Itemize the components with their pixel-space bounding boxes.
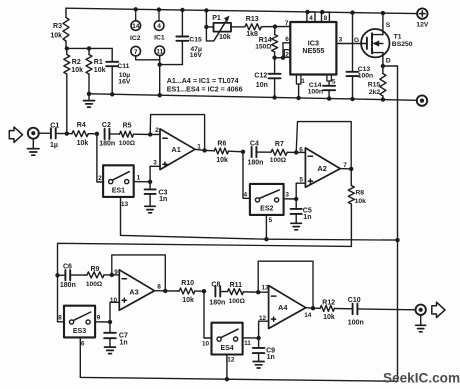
switch ES2 [250, 184, 284, 215]
svg-text:4: 4 [157, 23, 161, 30]
svg-text:1: 1 [137, 174, 141, 181]
svg-text:10: 10 [202, 341, 210, 348]
wire drain to control line [383, 66, 398, 381]
label IC1 [154, 35, 165, 42]
node P1 branch [204, 8, 208, 12]
wire control net upper [121, 235, 398, 240]
ground left rail [84, 92, 95, 107]
capacitor C10 [348, 297, 364, 327]
svg-text:C1: C1 [50, 123, 59, 130]
svg-text:2: 2 [285, 52, 289, 59]
node R14 bottom [272, 56, 276, 60]
output terminal ground [416, 315, 426, 332]
svg-text:11: 11 [156, 48, 163, 55]
svg-text:R9: R9 [91, 266, 100, 273]
svg-text:R4: R4 [77, 122, 86, 129]
watermark SeekIC.com [383, 371, 460, 386]
svg-text:R8: R8 [355, 190, 364, 197]
ground C9 [253, 362, 264, 369]
wire A1 out [195, 149, 205, 150]
svg-text:180n: 180n [209, 299, 225, 306]
svg-text:P1: P1 [212, 15, 221, 22]
wire C1-node [56, 132, 67, 134]
A3 feedback loop [112, 255, 166, 291]
resistor R1 [86, 48, 106, 93]
resistor R2 [64, 48, 83, 133]
resistor R7 [257, 141, 297, 164]
A1 feedback loop [150, 115, 204, 151]
wire A2 -in [296, 151, 305, 153]
wire node-ES1 [97, 134, 103, 182]
capacitor C9 [253, 338, 275, 361]
svg-text:C2: C2 [102, 122, 111, 129]
wire ES4 pin12 [227, 355, 235, 380]
svg-text:10k: 10k [182, 297, 194, 304]
switch ES3 [64, 306, 95, 338]
wire A2 +in [296, 183, 305, 199]
wire pin3 to gate [336, 37, 367, 44]
capacitor C13 [347, 10, 374, 101]
svg-text:150Ω: 150Ω [255, 44, 272, 51]
terminal 0V [417, 95, 427, 105]
ground C3 [145, 206, 156, 213]
capacitor C1 [50, 123, 59, 149]
svg-text:1n: 1n [159, 196, 167, 203]
svg-text:2: 2 [98, 175, 102, 182]
svg-text:7: 7 [343, 162, 347, 169]
svg-text:C4: C4 [250, 141, 259, 148]
wire ES4 out [243, 338, 259, 347]
wire pins 2-6 tie [275, 36, 291, 60]
resistor R13 [245, 16, 261, 38]
A2 feedback loop [296, 122, 351, 169]
power terminal +12V [416, 8, 429, 28]
svg-text:A1...A4 = IC1 = TL074: A1...A4 = IC1 = TL074 [167, 77, 239, 85]
switch ES4 [212, 323, 243, 355]
svg-text:100Ω: 100Ω [229, 298, 246, 305]
svg-text:R7: R7 [275, 141, 284, 148]
svg-text:C11: C11 [117, 63, 129, 70]
wire A4 +in [259, 321, 269, 338]
svg-text:D: D [386, 57, 391, 64]
wire bias node [67, 47, 112, 49]
resistor R9 [70, 266, 112, 288]
svg-text:IC2: IC2 [130, 35, 141, 42]
svg-text:ES1: ES1 [112, 188, 125, 195]
svg-text:5: 5 [299, 176, 303, 183]
svg-text:16V: 16V [118, 78, 131, 85]
svg-text:9: 9 [97, 315, 101, 322]
svg-text:7: 7 [134, 49, 138, 56]
wire A1 -in [150, 133, 160, 135]
wire drain [383, 53, 391, 66]
svg-text:C8: C8 [211, 282, 220, 289]
svg-text:A1: A1 [171, 145, 180, 154]
svg-text:R3: R3 [53, 23, 62, 30]
op-amp A1 [153, 127, 201, 170]
node IC2 supply stub [134, 7, 138, 11]
svg-text:12: 12 [227, 357, 235, 364]
svg-text:10k: 10k [355, 198, 367, 205]
wire A3 out [154, 290, 165, 292]
node R3/R2 [65, 46, 69, 50]
resistor R3 [50, 8, 69, 48]
svg-text:6: 6 [285, 36, 289, 43]
wire A1 +in [150, 166, 160, 182]
wire ES3 pin6 [80, 337, 85, 377]
resistor R4 [67, 122, 97, 147]
svg-text:100Ω: 100Ω [270, 157, 287, 164]
label ES2 pin4 [244, 191, 248, 198]
svg-text:S: S [386, 22, 391, 29]
node A4 out [311, 306, 315, 310]
node R10/C8/ES4 [202, 289, 206, 293]
svg-text:R5: R5 [123, 123, 132, 130]
svg-text:1n: 1n [303, 214, 311, 221]
svg-text:1n: 1n [120, 339, 128, 346]
IC3 NE555 box [290, 22, 336, 75]
svg-text:10k: 10k [323, 314, 335, 321]
node C11 gnd [110, 92, 114, 96]
wire node-ES2 [243, 152, 250, 199]
wire +12V top rail [66, 8, 417, 13]
svg-text:R15: R15 [368, 81, 381, 88]
svg-text:G: G [354, 37, 359, 44]
svg-text:C10: C10 [348, 297, 361, 304]
node A3 out [163, 289, 167, 293]
input terminal ground [28, 139, 40, 156]
svg-text:C7: C7 [119, 332, 128, 339]
op-amp A3 [110, 269, 161, 310]
svg-text:7: 7 [285, 20, 289, 27]
svg-text:NE555: NE555 [302, 46, 324, 55]
node A1 out [202, 148, 206, 152]
svg-text:13: 13 [121, 201, 129, 208]
svg-text:4: 4 [244, 191, 248, 198]
label ES4 pin10 [202, 341, 210, 348]
svg-text:C12: C12 [254, 72, 267, 79]
svg-text:3: 3 [285, 192, 289, 199]
pin circle 4 IC1 [154, 10, 164, 31]
node 11/gnd [158, 93, 162, 97]
svg-text:180n: 180n [99, 141, 115, 148]
wire source [383, 13, 391, 34]
capacitor C15 [158, 8, 203, 67]
node A3 inv input [110, 273, 114, 277]
svg-text:8: 8 [58, 315, 62, 322]
node ES4 pin12 junction [225, 377, 229, 381]
svg-text:10k: 10k [216, 157, 228, 164]
output arrow [432, 302, 445, 317]
node control-drain [395, 238, 399, 242]
svg-text:11: 11 [244, 340, 251, 347]
svg-text:A2: A2 [317, 164, 326, 173]
node ES4/C9 [256, 336, 260, 340]
node A2 inv input [294, 150, 298, 154]
svg-text:4: 4 [309, 15, 313, 22]
ground rail [89, 94, 417, 101]
svg-text:SeekIC.com: SeekIC.com [383, 371, 460, 386]
capacitor C4 [248, 141, 264, 167]
svg-text:3: 3 [339, 37, 343, 44]
node A1 inv input [148, 132, 152, 136]
wire input-C1 [38, 132, 51, 134]
A4 feedback loop [258, 261, 313, 308]
wire ES2 out [284, 192, 297, 199]
wire A4 out [306, 307, 313, 310]
node ES2 pin5 junction [264, 237, 268, 241]
svg-text:IC1: IC1 [154, 35, 165, 42]
node R1 top [87, 46, 91, 50]
svg-text:R13: R13 [246, 16, 259, 23]
svg-text:10n: 10n [256, 82, 268, 89]
svg-text:A4: A4 [278, 303, 288, 312]
wire A4 -in [258, 291, 268, 293]
pin circle 14 IC2 [131, 9, 141, 30]
capacitor C12 [254, 58, 280, 100]
resistor R6 [205, 141, 243, 165]
pin circle 7 IC2 [131, 46, 160, 59]
node source [381, 11, 385, 15]
svg-text:100n: 100n [358, 73, 374, 80]
node input bias [65, 131, 69, 135]
ground C5 [291, 223, 302, 230]
wire ES2 pin5 [266, 215, 272, 239]
svg-text:180n: 180n [60, 282, 76, 289]
svg-text:ES4: ES4 [220, 345, 233, 352]
svg-text:10k: 10k [219, 34, 231, 41]
capacitor C5 [291, 199, 312, 223]
svg-text:ES3: ES3 [73, 328, 86, 335]
svg-text:8: 8 [324, 15, 328, 22]
svg-text:12V: 12V [416, 22, 429, 29]
capacitor C11 [106, 48, 131, 94]
pin circle 11 IC1 [155, 46, 165, 95]
svg-text:1k8: 1k8 [246, 31, 258, 38]
wire A3 +in [110, 302, 119, 322]
wire node-ES4 [204, 291, 212, 338]
capacitor C8 [209, 282, 225, 307]
svg-text:ES1...ES4 = IC2 = 4066: ES1...ES4 = IC2 = 4066 [167, 85, 243, 93]
pin 5 stub [327, 75, 336, 86]
node A4 inv input [256, 290, 260, 294]
pin 1 stub [296, 75, 305, 101]
wire ES3 out [95, 315, 110, 322]
svg-text:5: 5 [269, 217, 273, 224]
label IC2 [130, 35, 141, 42]
resistor R10 [165, 280, 204, 304]
svg-text:R11: R11 [230, 282, 243, 289]
svg-text:16V: 16V [190, 52, 203, 59]
node ES3/C7 [108, 320, 112, 324]
input terminal [28, 128, 39, 139]
svg-text:1µ: 1µ [50, 142, 58, 149]
transistor T1 BS250 [361, 29, 413, 57]
svg-text:R12: R12 [322, 299, 335, 306]
svg-text:A3: A3 [129, 287, 138, 296]
capacitor C3 [145, 182, 168, 206]
svg-text:2k2: 2k2 [369, 89, 381, 96]
svg-text:C6: C6 [63, 264, 72, 271]
svg-text:8: 8 [157, 284, 161, 291]
node A2 out [349, 167, 353, 171]
node C6 [55, 273, 59, 277]
svg-text:180n: 180n [248, 160, 264, 167]
svg-text:10k: 10k [50, 33, 62, 40]
wire ES1 out [134, 174, 150, 181]
svg-text:100n: 100n [348, 319, 364, 326]
node drain [381, 64, 385, 68]
wire R13-pin7 [261, 20, 290, 29]
wire A3 -in [112, 274, 120, 276]
resistor R11 [220, 282, 258, 305]
svg-text:1n: 1n [267, 354, 275, 361]
wire R8 to C6 [58, 243, 352, 321]
svg-text:3: 3 [153, 160, 157, 167]
ground C7 [105, 347, 116, 354]
note IC equivalences [167, 77, 243, 93]
wire control net lower [80, 377, 397, 381]
capacitor C2 [99, 122, 115, 147]
svg-text:6: 6 [81, 341, 85, 348]
input arrow [9, 127, 22, 142]
resistor R15 [368, 66, 386, 102]
resistor R14 [255, 27, 277, 58]
capacitor C14 [308, 81, 336, 101]
pin 8 stub [320, 10, 329, 22]
op-amp A4 [259, 285, 312, 329]
svg-text:10k: 10k [71, 67, 83, 74]
wire C10-output [358, 308, 416, 311]
svg-text:T1: T1 [394, 33, 402, 40]
op-amp A2 [299, 146, 347, 187]
svg-text:14: 14 [132, 23, 140, 30]
wire A2 out [340, 168, 351, 170]
node R6/C4/ES2 [241, 150, 245, 154]
node A1 +in [148, 180, 152, 184]
output terminal [416, 305, 426, 315]
svg-text:R6: R6 [217, 141, 226, 148]
node ES2/C5 [294, 197, 298, 201]
resistor R8 [348, 169, 366, 247]
wire rail-ES3 [58, 321, 65, 323]
svg-text:2: 2 [155, 127, 159, 134]
svg-text:100Ω: 100Ω [86, 281, 103, 288]
capacitor C6 [58, 264, 76, 289]
svg-text:5: 5 [332, 78, 336, 85]
switch ES1 [103, 165, 134, 197]
svg-text:14: 14 [304, 312, 312, 319]
svg-text:13: 13 [262, 285, 270, 292]
svg-text:BS250: BS250 [392, 41, 413, 48]
svg-text:C15: C15 [189, 36, 202, 43]
svg-text:10k: 10k [77, 140, 89, 147]
label ES3 pin8 [58, 315, 62, 322]
wire P1-R13 [231, 26, 245, 28]
svg-text:R1: R1 [94, 59, 103, 66]
resistor R5 [109, 123, 150, 147]
svg-text:10k: 10k [94, 67, 106, 74]
node R4/C2/ES1 [95, 132, 99, 136]
label ES1 pin2 [98, 175, 102, 182]
node IC1 supply stub [157, 7, 161, 11]
svg-text:1: 1 [301, 78, 305, 85]
capacitor C7 [104, 322, 128, 347]
svg-text:R10: R10 [181, 280, 194, 287]
svg-text:R2: R2 [72, 59, 81, 66]
resistor R12 [313, 299, 353, 321]
svg-text:100n: 100n [308, 89, 324, 96]
svg-text:ES2: ES2 [260, 206, 273, 213]
wire ES1 pin13 [121, 197, 129, 236]
pin 4 stub [305, 10, 315, 22]
svg-text:100Ω: 100Ω [119, 140, 136, 147]
potentiometer P1 [204, 10, 231, 41]
